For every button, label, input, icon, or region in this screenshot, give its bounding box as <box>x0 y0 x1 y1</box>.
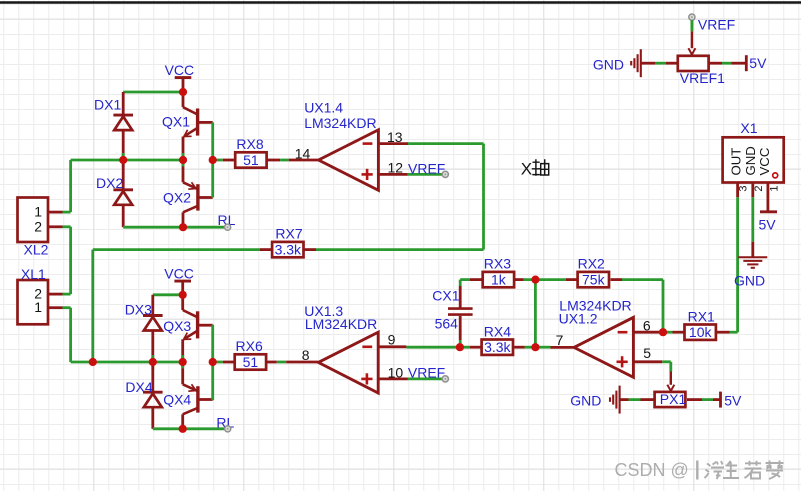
power 5V X1 <box>759 212 778 233</box>
wire RX7 to lower node <box>93 250 260 362</box>
pin 2 X1 <box>753 183 765 197</box>
label UX1.2 <box>559 298 632 327</box>
svg-text:RX8: RX8 <box>236 136 263 152</box>
op-amp UX1.4 <box>319 130 379 191</box>
svg-text:10: 10 <box>388 365 404 381</box>
resistor RX8 <box>223 136 280 168</box>
svg-text:VREF: VREF <box>698 17 735 33</box>
svg-text:XL2: XL2 <box>24 242 49 258</box>
svg-text:13: 13 <box>387 129 403 145</box>
svg-text:2: 2 <box>753 185 765 191</box>
diode DX1 <box>94 92 133 160</box>
wire bottom row upper <box>123 226 227 229</box>
pin 12 lead <box>378 159 407 175</box>
wire base net upper <box>213 122 223 197</box>
svg-text:GND: GND <box>570 393 601 409</box>
lead VREF1 left <box>666 62 678 65</box>
svg-text:5V: 5V <box>759 217 777 233</box>
op-amp UX1.2 <box>574 317 633 377</box>
svg-text:GND: GND <box>593 56 624 72</box>
diode DX4 <box>125 362 162 429</box>
label UX1.3 <box>304 303 377 332</box>
junction diode mid upper <box>119 156 127 164</box>
svg-text:RX3: RX3 <box>484 256 511 272</box>
svg-text:XL1: XL1 <box>21 266 46 282</box>
svg-text:RX1: RX1 <box>688 308 715 324</box>
diode DX2 <box>96 160 133 227</box>
svg-text:DX4: DX4 <box>125 379 152 395</box>
junction emitter node lower <box>179 358 187 366</box>
wire VREF1 right <box>709 62 747 65</box>
svg-text:GND: GND <box>734 272 765 288</box>
svg-text:14: 14 <box>295 145 311 161</box>
svg-text:UX1.2: UX1.2 <box>559 310 598 326</box>
resistor RX4 <box>470 323 525 355</box>
watermark CSDN <box>615 460 784 480</box>
pin 5 lead <box>633 345 662 362</box>
wire RX4 right <box>525 346 536 349</box>
svg-text:VREF1: VREF1 <box>680 70 725 86</box>
junction pin6 <box>659 328 667 336</box>
junction RX4 right <box>531 343 539 351</box>
diode DX3 <box>125 295 163 362</box>
wire XL2 pin2 to XL1 pin2 <box>63 227 71 294</box>
svg-text:VCC: VCC <box>165 62 195 78</box>
power VCC upper <box>165 62 195 92</box>
svg-text:LM324KDR: LM324KDR <box>305 316 377 332</box>
svg-text:VCC: VCC <box>164 266 194 282</box>
connector XL2 <box>18 198 63 258</box>
svg-text:51: 51 <box>243 152 259 168</box>
junction diode mid lower <box>149 358 157 366</box>
junction VCC node lower <box>179 291 187 299</box>
wire pin9 to RX4 <box>406 346 470 349</box>
power 5V PX1 <box>721 392 742 409</box>
connector XL1 <box>18 266 63 325</box>
svg-text:75k: 75k <box>582 272 606 288</box>
svg-text:3.3k: 3.3k <box>275 242 302 258</box>
svg-text:LM324KDR: LM324KDR <box>304 115 376 131</box>
svg-text:1k: 1k <box>491 272 507 288</box>
svg-text:3: 3 <box>738 185 750 191</box>
wire X1 pin2 to ground <box>751 197 754 242</box>
net label RL lower <box>216 414 234 432</box>
svg-text:RX7: RX7 <box>275 226 302 242</box>
ground symbol PX1 <box>610 386 629 414</box>
svg-text:8: 8 <box>302 347 310 363</box>
transistor QX2 <box>183 160 213 227</box>
svg-text:1: 1 <box>34 299 42 315</box>
wire RX3-RX4 vertical <box>534 280 537 348</box>
arrow into PX1 <box>667 372 674 392</box>
svg-text:VCC: VCC <box>757 147 772 175</box>
svg-text:OUT: OUT <box>728 148 743 176</box>
connector X1 <box>723 120 784 183</box>
svg-text:VREF: VREF <box>408 160 445 176</box>
svg-text:PX1: PX1 <box>660 391 687 407</box>
junction RX7 node <box>89 358 97 366</box>
arrow into VREF1 <box>688 31 695 54</box>
svg-text:UX1.4: UX1.4 <box>304 100 343 116</box>
net label VREF pin12 <box>408 160 449 177</box>
pin 1 X1 <box>768 183 781 212</box>
net label VREF top <box>689 14 735 33</box>
wire XL1 pin1 to mid row lower <box>63 308 183 362</box>
svg-text:10k: 10k <box>689 324 713 340</box>
svg-text:RX2: RX2 <box>578 256 605 272</box>
pin 7 lead <box>551 332 575 348</box>
svg-text:6: 6 <box>643 317 651 333</box>
wire bottom row lower <box>153 427 228 430</box>
pin 6 lead <box>633 317 661 333</box>
wire VCC to diode branch lower <box>153 293 183 296</box>
label UX1.4 <box>304 100 376 132</box>
pin 8 lead <box>286 347 318 363</box>
wire pin7 <box>535 346 550 349</box>
junction RX3 right <box>531 276 539 284</box>
wire RX2 to pin6 <box>622 280 663 333</box>
net label VREF pin10 <box>408 365 449 382</box>
transistor QX1 <box>183 92 213 160</box>
svg-text:QX4: QX4 <box>163 392 191 408</box>
ground symbol VREF1 <box>631 49 655 77</box>
svg-text:QX1: QX1 <box>162 114 190 130</box>
junction collector QX2 node <box>179 223 187 231</box>
svg-text:3.3k: 3.3k <box>484 339 511 355</box>
wire base net lower <box>213 325 223 401</box>
power VCC lower <box>164 266 194 295</box>
svg-text:12: 12 <box>388 159 404 175</box>
potentiometer VREF1 <box>678 56 725 86</box>
wire RX3 to RX2 <box>524 278 566 281</box>
svg-text:X1: X1 <box>740 120 757 136</box>
resistor RX6 <box>223 338 277 370</box>
svg-text:DX2: DX2 <box>96 175 123 191</box>
pin 10 lead <box>378 365 408 381</box>
pin 13 lead <box>378 129 408 145</box>
pin 9 lead <box>378 332 406 348</box>
svg-text:VREF: VREF <box>408 365 445 381</box>
svg-text:GND: GND <box>743 146 758 175</box>
svg-text:DX1: DX1 <box>94 97 121 113</box>
transistor QX4 <box>183 362 213 429</box>
resistor RX3 <box>470 256 524 288</box>
junction emitter node upper <box>179 156 187 164</box>
wire mid row upper <box>63 160 184 212</box>
svg-text:QX2: QX2 <box>163 189 191 205</box>
pin 3 X1 <box>738 183 750 197</box>
wire pin6 node <box>662 331 673 334</box>
svg-text:DX3: DX3 <box>125 302 152 318</box>
lead PX1 left <box>641 398 655 401</box>
svg-text:X: X <box>521 160 532 179</box>
junction CX1 node <box>456 343 464 351</box>
wire PX1 left <box>629 398 641 401</box>
wire VREF stub <box>691 20 694 31</box>
wire pin5 to PX1 <box>662 362 671 372</box>
svg-text:CX1: CX1 <box>432 288 459 304</box>
wire VCC to diode branch <box>123 91 183 94</box>
svg-text:5V: 5V <box>724 393 742 409</box>
net label RL upper <box>218 212 236 230</box>
svg-text:5V: 5V <box>749 55 767 71</box>
svg-text:9: 9 <box>388 332 396 348</box>
svg-text:1: 1 <box>768 185 780 191</box>
wire RX1 to X1 pin3 <box>730 197 738 332</box>
svg-text:7: 7 <box>556 332 564 348</box>
svg-text:RX4: RX4 <box>484 323 511 339</box>
svg-text:RX6: RX6 <box>236 338 263 354</box>
wire VREF1 left <box>655 62 666 65</box>
resistor RX7 <box>260 226 316 258</box>
svg-text:1: 1 <box>34 204 42 220</box>
svg-text:5: 5 <box>643 345 651 361</box>
junction collector QX4 node <box>179 425 187 433</box>
pin 14 lead <box>289 145 319 161</box>
junction VCC node <box>179 88 187 96</box>
power 5V VREF1 <box>746 55 767 71</box>
svg-text:QX3: QX3 <box>163 318 191 334</box>
resistor RX2 <box>566 256 622 288</box>
op-amp UX1.3 <box>318 332 378 393</box>
ground earth X1 <box>738 242 767 268</box>
junction base node lower <box>209 358 217 366</box>
wire RX6 to UX1.3 <box>277 361 286 364</box>
svg-text:564: 564 <box>435 316 459 332</box>
wire PX1 right <box>687 398 721 401</box>
text X axis <box>521 159 549 178</box>
wire RX8 to UX1.4 <box>280 159 289 162</box>
wire feedback loop upper <box>316 144 484 250</box>
junction base node upper <box>209 156 217 164</box>
resistor RX1 <box>673 308 730 340</box>
transistor QX3 <box>183 295 213 362</box>
svg-text:2: 2 <box>34 218 42 234</box>
capacitor CX1 <box>432 280 472 348</box>
svg-text:CSDN @: CSDN @ <box>615 460 689 480</box>
potentiometer PX1 <box>655 391 687 407</box>
svg-text:51: 51 <box>243 354 259 370</box>
